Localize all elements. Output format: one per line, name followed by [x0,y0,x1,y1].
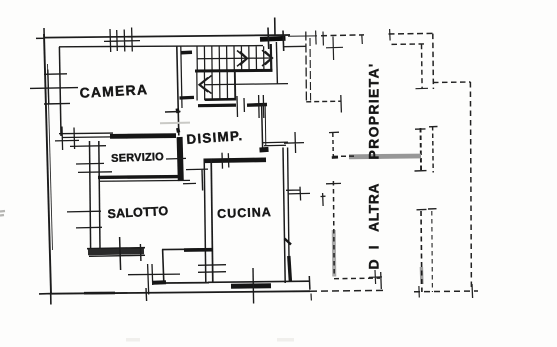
door ticks disimp-terrace [284,132,304,153]
tick mid-top left [322,32,324,46]
door D1 ticks [268,18,284,52]
stairs lower flight right divider [234,71,237,101]
tick annex corner end [340,95,343,113]
svg-text:DI: DI [366,236,382,270]
tick top extension end [315,31,318,45]
wall cucina right double [283,148,285,284]
tick crossing salotto band [120,237,121,270]
stairs lower flight treads [197,71,228,101]
stairs landing right edge [276,42,277,84]
wall camera bottom thin [59,132,113,135]
tick terrace top-left end [389,29,392,41]
door ticks stairs-disimp [237,96,244,117]
door tick servizio bottom end [201,170,204,191]
wire outer left wall inner line [48,64,53,250]
cross under mid-top line [326,37,343,61]
node top-left corner cross [36,28,44,38]
wire thin top extension [288,35,317,37]
door tick camera-disimp [165,111,181,114]
dashed vertical x333 lower [332,181,335,277]
tick column mid top left [415,128,426,130]
wall servizio top thick [110,133,176,139]
wire inner top wall right of door [284,45,306,47]
wall step vertical [163,249,164,282]
step line to cucina wall [166,282,209,284]
wall bottom inner thick band [231,283,271,289]
svg-text:DISIMP.: DISIMP. [186,128,244,147]
wall disimp right upper [262,104,263,148]
door tick servizio right [166,157,186,160]
gray highlight bar vertical x334 [332,230,337,277]
dashed column mid segment right [432,126,435,173]
wire outer left wall [44,34,51,294]
stairs arrowhead 1 [237,51,248,67]
stairs mid rail thick [195,69,273,73]
wall servizio bottom thick [98,175,180,179]
wall cucina right lower thick [289,256,291,282]
wall stairs bottom thick [198,103,236,107]
dashed column mid segment left [420,128,423,173]
stairs upper flight treads [197,46,271,70]
tick bottom wall left [145,288,148,301]
tick column lower top left [417,208,427,210]
plus mark under vertical text [369,270,382,284]
dashed vertical x333 upper [332,133,335,157]
window W5 cucina left [198,265,226,273]
wire outer bottom wall dashed continuation [310,289,385,292]
dashed terrace top-right outer [389,32,434,35]
tick bottom terrace right [471,284,474,298]
wall cucina top thick [204,160,266,161]
tick x333 top [329,131,339,133]
faint pencil line left of disimp [160,122,190,125]
tick column mid bottom [415,170,427,172]
svg-text:CAMERA: CAMERA [79,81,148,101]
svg-text:PROPRIETA': PROPRIETA' [366,63,382,160]
stairs down-arrow line [204,84,288,85]
wire inner top wall [59,46,263,47]
wall salotto bottom band thick [88,251,144,252]
svg-text:CUCINA: CUCINA [217,205,272,221]
door ticks servizio left upper [70,146,112,173]
dashes over gray bar [333,155,354,157]
tick below bottom wall [310,294,312,301]
stairs up-arrow line [197,57,271,60]
wall servizio right thick [180,137,181,181]
door swing disimp-salotto [183,169,208,184]
tick bottom terrace left [418,286,420,298]
small mark x323 [321,193,326,206]
wall corner disimp thick [260,147,269,153]
tick terrace inner vertical bottom [416,87,429,89]
wall bottom inner [208,281,309,282]
wire outer bottom wall [50,291,310,294]
stairs arrowhead 3 [199,76,212,94]
tick column lower top right [428,208,437,210]
node bottom-left corner cross [39,294,51,305]
dashed column lower right [431,211,434,292]
dashed terrace top-right inner [392,43,427,46]
stairs lower rail thick [205,98,235,101]
wall disimp jog to right [262,142,288,146]
stairs landing left edge thick [270,44,273,71]
window W3 camera bottom [55,127,79,151]
step posts [148,264,153,295]
door tick cucina right [286,187,310,201]
dashed corner x334 bottom to right [334,277,380,280]
svg-text:SERVIZIO: SERVIZIO [111,151,164,165]
wall cucina left double [204,159,206,284]
faint bottom smudge left [126,338,140,342]
door D1 top wall thick segment [260,38,286,39]
window W4 salotto left [67,211,102,228]
svg-text:SALOTTO: SALOTTO [107,204,169,221]
dashed bottom terrace line [414,290,478,293]
window W1 left wall [30,70,78,105]
door ticks pair [259,95,264,118]
dashed long right vertical [470,82,471,290]
tick balcony door edge [139,244,142,261]
wire outer top wall [44,35,291,38]
wall salotto bottom right [162,248,209,251]
gray highlight bar horizontal [349,154,421,160]
svg-text:ALTRA: ALTRA [366,183,382,232]
corner blob x333 [332,156,338,159]
door ticks disimp-cucina [222,153,229,169]
wall camera inner left [59,47,61,136]
dashed connector to long vertical [433,81,471,84]
step rail horizontal [128,273,180,276]
stairs start marker [181,50,192,54]
dashed column lower left [420,211,423,292]
tick bottom band [252,268,255,304]
tick mid-top right [361,35,364,44]
tick bottom inner end [308,276,311,290]
wall right annex vertical double [305,32,308,102]
tick on x333 [326,182,341,184]
wall servizio left double [90,141,91,248]
dashed terrace right inner vertical [421,44,424,88]
wall step mark [285,239,292,245]
mark left page edge [0,211,5,216]
wall salotto bottom right thick part [184,248,213,252]
gray highlight bar vertical x421 [420,267,424,284]
stairs arrowhead 2 [262,50,273,66]
tick corner end [380,272,383,289]
wall bottom left thicker part [84,292,115,295]
dashed terrace line mid-top [321,34,364,37]
tick column mid top right [429,126,438,128]
window W2 top wall [104,28,140,53]
wall camera right / stairwell left [177,46,179,136]
wire annex corner dashed [306,100,341,103]
wall stub left of lower flight [180,96,195,100]
wall segment right of stair door thick [247,103,267,107]
faint bottom smudge right [277,338,294,342]
dashed terrace right outer vertical [432,34,435,89]
step corner thick [153,280,166,285]
